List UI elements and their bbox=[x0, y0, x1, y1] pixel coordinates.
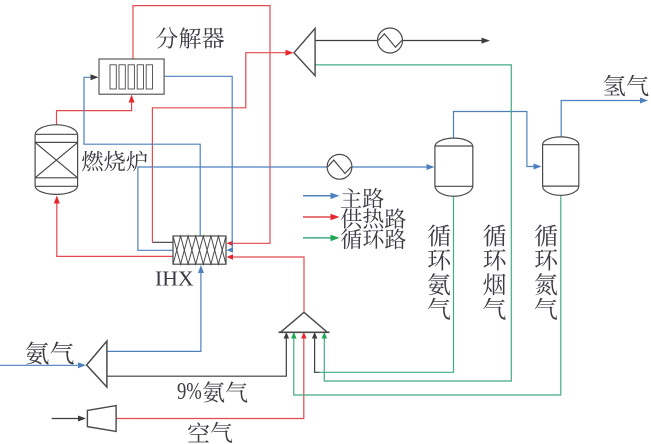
arrowhead green into manifold (arrow 2) bbox=[291, 332, 297, 339]
wire: ammonia feed into compressor (blue) bbox=[0, 364, 82, 366]
air blower horn bbox=[87, 406, 116, 432]
label 燃烧炉 (combustion furnace) bbox=[82, 151, 147, 172]
label 循环烟气 (circulating flue gas) bbox=[483, 225, 505, 320]
arrowhead blue up into IHX bottom bbox=[198, 265, 204, 273]
wire: vessel 1 bottom circulation (green) bbox=[320, 197, 454, 372]
wire: decomposer top loop to IHX right (red) bbox=[133, 6, 270, 244]
wire: compressor out up into IHX bottom (blue) bbox=[107, 272, 201, 352]
separator vessel 1 (ammonia) bbox=[435, 138, 473, 196]
arrowhead black exhaust bbox=[482, 38, 491, 44]
cooler circle on main line bbox=[327, 154, 352, 179]
mixer manifold (triangle hood) bbox=[280, 312, 327, 332]
ammonia compressor bbox=[87, 341, 107, 387]
label 氢气 (hydrogen) bbox=[604, 75, 649, 96]
arrowhead red into IHX right side (bottom) bbox=[227, 254, 234, 260]
legend label 供热路 (heat supply path) bbox=[341, 208, 406, 228]
wire: 9% ammonia line from compressor to manifold (black) bbox=[107, 334, 286, 376]
turbine/expander (top) bbox=[294, 28, 315, 75]
arrowhead blue into vessel 2 bbox=[534, 164, 542, 170]
wire: turbine green out, flue-gas circulation to manifold bbox=[315, 65, 511, 381]
IHX heat exchanger box bbox=[173, 236, 226, 264]
wire: vessel 1 top to vessel 2 (blue) bbox=[454, 112, 537, 167]
arrowhead red into IHX right side (top) bbox=[227, 241, 234, 247]
wire: air inlet arrow (black) bbox=[52, 418, 81, 420]
wire: vessel 2 top to hydrogen outlet (blue) bbox=[561, 101, 643, 137]
arrowhead red up into furnace bottom bbox=[54, 196, 60, 204]
wire: IHX out via riser to turbine inlet (red) bbox=[152, 53, 289, 243]
wire: decomposer out down into IHX right (blue) bbox=[164, 76, 232, 250]
svg-text:9%: 9% bbox=[177, 378, 202, 405]
arrowhead black into decomposer left bbox=[91, 74, 99, 80]
cooler circle on exhaust bbox=[378, 28, 403, 53]
arrowhead blue into vessel 1 bbox=[427, 164, 435, 170]
label 空气 (air) bbox=[188, 422, 232, 443]
legend circulation-path green arrow bbox=[303, 237, 335, 239]
arrowhead blue into IHX right side (middle) bbox=[227, 247, 234, 253]
arrowhead blue into compressor vertex bbox=[78, 362, 86, 368]
arrowhead red into turbine vertex bbox=[286, 50, 294, 56]
combustion furnace vessel 燃烧炉 bbox=[35, 125, 78, 195]
legend label 循环路 (circulation path) bbox=[341, 229, 406, 249]
arrowhead green into manifold (arrow 5) bbox=[322, 332, 328, 339]
arrowhead black into air blower bbox=[78, 416, 86, 422]
arrowhead black into manifold (arrow 1) bbox=[284, 332, 290, 339]
arrowhead black into manifold (arrow 4) bbox=[312, 332, 318, 339]
legend main-path blue arrow bbox=[303, 195, 335, 197]
wire: manifold apex up to IHX right (red) bbox=[229, 257, 304, 312]
arrowhead red up into decomposer bottom bbox=[129, 95, 135, 103]
separator vessel 2 (nitrogen) bbox=[543, 137, 579, 195]
legend label 主路 (main path) bbox=[341, 188, 384, 208]
wire: IHX top up-left into decomposer (blue) bbox=[84, 77, 200, 236]
wire: IHX left out to furnace bottom (red) bbox=[57, 200, 173, 257]
svg-text:IHX: IHX bbox=[155, 267, 194, 291]
label 分解器 (decomposer) bbox=[156, 27, 224, 48]
wire: turbine exhaust through cooler (black) bbox=[315, 40, 377, 42]
wire: IHX left out, main line to cooler and vessel 1 (blue) bbox=[138, 167, 327, 250]
arrowhead red into manifold (arrow 3) bbox=[301, 332, 307, 339]
wire: furnace top to decomposer bottom (red) bbox=[57, 100, 132, 125]
wire: air red line to manifold bbox=[116, 334, 304, 419]
wire: black stub from red riser into IHX left bbox=[152, 241, 173, 243]
arrowhead blue hydrogen outlet bbox=[640, 98, 648, 104]
label 氨气 (ammonia) bbox=[26, 342, 74, 365]
decomposer box 分解器 bbox=[99, 59, 164, 94]
legend heat-path red arrow bbox=[303, 216, 335, 218]
label 循环氨气 (circulating ammonia) bbox=[428, 225, 450, 320]
label 氨气 of 9%氨气 bbox=[203, 381, 247, 402]
wire: vessel 2 bottom circulation to manifold (green) bbox=[294, 196, 561, 396]
IHX lattice bbox=[173, 236, 226, 264]
label 循环氮气 (circulating nitrogen) bbox=[535, 225, 557, 320]
wire: black riser for vessel-1 return into manifold (arrow 4) bbox=[315, 334, 320, 372]
